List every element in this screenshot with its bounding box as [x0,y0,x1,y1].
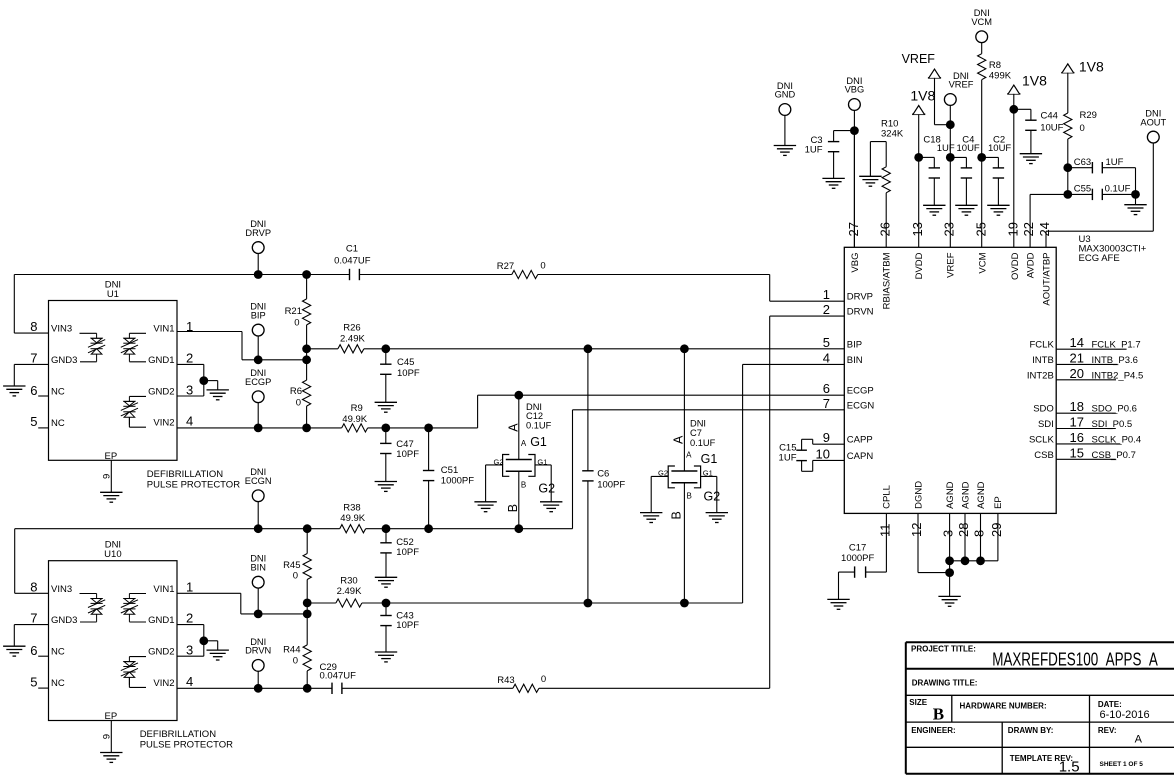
svg-text:R26: R26 [343,323,360,334]
svg-text:ECG AFE: ECG AFE [1079,253,1120,264]
svg-text:BIN: BIN [847,355,863,366]
svg-text:B: B [687,491,692,500]
svg-text:C17: C17 [849,542,866,553]
svg-text:GND2: GND2 [148,386,174,397]
svg-text:27: 27 [846,222,861,236]
svg-text:VIN2: VIN2 [153,678,174,689]
svg-text:SDO_P0.6: SDO_P0.6 [1092,404,1137,415]
svg-text:3: 3 [186,382,193,397]
svg-text:10PF: 10PF [396,449,419,460]
svg-text:BIP: BIP [251,310,266,320]
svg-text:10PF: 10PF [396,620,419,631]
svg-text:DRVN: DRVN [245,646,271,656]
svg-text:NC: NC [51,678,65,689]
svg-text:C1: C1 [346,244,358,255]
svg-text:SDI: SDI [1038,419,1054,430]
svg-text:5: 5 [30,674,37,689]
svg-text:VREF: VREF [949,80,974,90]
svg-text:0.1UF: 0.1UF [690,438,716,448]
svg-text:AOUT: AOUT [1140,117,1166,127]
svg-text:GND3: GND3 [51,355,77,366]
svg-text:C6: C6 [597,469,609,480]
svg-text:DEFIBRILLATION: DEFIBRILLATION [147,469,224,480]
svg-text:11: 11 [877,524,892,538]
svg-text:G1: G1 [701,452,718,466]
svg-text:8: 8 [972,530,987,537]
svg-text:15: 15 [1070,445,1084,460]
svg-text:5: 5 [30,414,37,429]
svg-text:7: 7 [30,350,37,365]
svg-text:8: 8 [30,579,37,594]
svg-text:1000PF: 1000PF [841,553,874,564]
svg-text:R8: R8 [989,60,1001,71]
svg-text:7: 7 [823,396,830,411]
svg-text:3: 3 [941,530,956,537]
svg-text:VIN2: VIN2 [153,418,174,429]
svg-text:AGND: AGND [945,481,956,509]
svg-text:PULSE PROTECTOR: PULSE PROTECTOR [147,480,240,491]
svg-text:NC: NC [51,387,65,398]
svg-text:GND1: GND1 [148,355,174,366]
svg-text:5: 5 [823,335,830,350]
svg-text:A: A [1135,734,1143,746]
svg-text:AGND: AGND [976,481,987,509]
svg-text:10PF: 10PF [397,368,420,379]
svg-text:0: 0 [540,260,545,271]
svg-text:R44: R44 [283,644,300,655]
svg-text:HARDWARE NUMBER:: HARDWARE NUMBER: [960,702,1047,711]
svg-text:INT2B: INT2B [1027,370,1054,381]
svg-text:VBG: VBG [850,253,861,273]
svg-text:DRVN: DRVN [847,307,874,318]
svg-text:1V8: 1V8 [1079,59,1104,75]
svg-text:AGND: AGND [960,481,971,509]
svg-text:0: 0 [293,655,298,666]
svg-text:29: 29 [989,523,1004,537]
svg-text:BIN: BIN [250,562,266,572]
svg-text:INTB_P3.6: INTB_P3.6 [1092,355,1138,366]
svg-text:0: 0 [294,317,299,328]
svg-text:C55: C55 [1074,184,1091,195]
svg-text:49.9K: 49.9K [340,513,365,524]
svg-text:G2: G2 [704,490,721,504]
svg-text:24: 24 [1037,222,1052,236]
svg-text:1: 1 [186,319,193,334]
svg-text:9: 9 [102,474,113,479]
svg-text:DRAWING TITLE:: DRAWING TITLE: [912,678,978,687]
svg-text:VREF: VREF [902,52,936,66]
svg-text:12: 12 [909,523,924,537]
svg-text:10UF: 10UF [957,143,980,154]
svg-text:ECGN: ECGN [847,400,875,411]
svg-text:499K: 499K [989,71,1012,82]
svg-text:B: B [670,511,684,519]
svg-text:1.5: 1.5 [1059,759,1080,775]
svg-text:INTB: INTB [1032,355,1054,366]
svg-text:DNI: DNI [690,418,706,428]
svg-text:DRAWN BY:: DRAWN BY: [1008,726,1054,735]
svg-text:SIZE: SIZE [909,698,927,707]
svg-text:ENGINEER:: ENGINEER: [911,726,955,735]
svg-text:1V8: 1V8 [910,88,935,104]
svg-text:C45: C45 [397,357,414,368]
svg-text:1: 1 [823,287,830,302]
svg-text:13: 13 [910,222,925,236]
svg-text:FCLK_P1.7: FCLK_P1.7 [1092,340,1141,351]
svg-text:9: 9 [823,430,830,445]
svg-text:B: B [506,504,520,512]
svg-text:49.9K: 49.9K [342,414,367,425]
svg-text:AVDD: AVDD [1025,252,1036,278]
svg-text:SCLK: SCLK [1029,434,1054,445]
svg-text:SHEET 1 OF 5: SHEET 1 OF 5 [1100,761,1144,768]
svg-text:MAXREFDES100_APPS_A: MAXREFDES100_APPS_A [992,650,1158,671]
svg-text:0.1UF: 0.1UF [1105,184,1131,195]
svg-text:SDO: SDO [1033,404,1054,415]
svg-text:4: 4 [186,414,193,429]
svg-text:OVDD: OVDD [1010,252,1021,280]
svg-text:DGND: DGND [913,481,924,509]
svg-text:REV:: REV: [1098,726,1117,735]
svg-text:2.49K: 2.49K [340,334,365,345]
svg-text:G1: G1 [537,458,547,467]
svg-text:DEFIBRILLATION: DEFIBRILLATION [140,729,217,740]
svg-text:R45: R45 [283,560,300,571]
svg-text:G1: G1 [703,468,713,477]
svg-text:9: 9 [102,734,113,739]
svg-text:2: 2 [186,611,193,626]
svg-text:BIP: BIP [847,340,862,351]
svg-text:21: 21 [1070,350,1084,365]
svg-text:6-10-2016: 6-10-2016 [1100,709,1150,721]
svg-text:SCLK_P0.4: SCLK_P0.4 [1092,434,1142,445]
svg-text:25: 25 [973,222,988,236]
svg-text:10PF: 10PF [396,547,419,558]
svg-text:NC: NC [51,647,65,658]
svg-text:2.49K: 2.49K [337,586,362,597]
svg-text:26: 26 [877,222,892,236]
svg-text:ECGP: ECGP [847,386,874,397]
svg-text:R30: R30 [340,576,357,587]
svg-text:0: 0 [293,571,298,582]
svg-text:0: 0 [296,398,301,409]
svg-text:10UF: 10UF [988,143,1011,154]
svg-text:G2: G2 [493,458,503,467]
svg-text:1: 1 [186,579,193,594]
svg-text:R6: R6 [290,386,302,397]
svg-text:EP: EP [993,496,1004,509]
svg-text:CAPN: CAPN [847,451,874,462]
svg-text:10: 10 [816,446,830,461]
svg-text:A: A [686,450,692,459]
svg-text:NC: NC [51,418,65,429]
svg-text:CPLL: CPLL [882,485,893,509]
svg-text:FCLK: FCLK [1030,340,1055,351]
svg-text:DATE:: DATE: [1098,700,1122,709]
svg-text:EP: EP [105,451,118,462]
svg-text:VIN1: VIN1 [153,584,174,595]
svg-text:C7: C7 [690,428,702,438]
svg-text:GND3: GND3 [51,615,77,626]
svg-text:6: 6 [30,383,37,398]
svg-text:0.047UF: 0.047UF [320,670,357,681]
svg-text:4: 4 [823,350,830,365]
svg-text:0.1UF: 0.1UF [526,421,552,431]
svg-text:1UF: 1UF [779,453,797,464]
svg-text:GND2: GND2 [148,647,174,658]
svg-text:2: 2 [823,302,830,317]
svg-text:0: 0 [1080,123,1085,134]
svg-text:3: 3 [186,643,193,658]
svg-text:1UF: 1UF [805,145,823,156]
svg-text:23: 23 [941,222,956,236]
svg-text:10UF: 10UF [1040,122,1063,133]
svg-text:20: 20 [1070,366,1084,381]
svg-text:100PF: 100PF [597,480,625,491]
svg-text:16: 16 [1070,430,1084,445]
svg-text:ECGN: ECGN [245,476,272,486]
svg-text:22: 22 [1021,222,1036,236]
svg-text:0: 0 [541,674,546,685]
svg-text:1UF: 1UF [937,143,955,154]
svg-text:RBIAS/ATBM: RBIAS/ATBM [882,252,893,309]
svg-text:19: 19 [1006,222,1021,236]
svg-text:R29: R29 [1080,110,1097,121]
svg-text:CSB: CSB [1034,450,1054,461]
svg-text:R9: R9 [351,403,363,414]
svg-text:AOUT/ATBP: AOUT/ATBP [1041,253,1052,306]
svg-text:A: A [521,439,527,448]
svg-text:6: 6 [823,381,830,396]
svg-text:CAPP: CAPP [847,435,873,446]
svg-text:VCM: VCM [971,17,992,27]
svg-text:VIN1: VIN1 [153,324,174,335]
svg-text:14: 14 [1070,335,1084,350]
svg-text:C63: C63 [1074,157,1091,168]
svg-text:A: A [671,435,685,444]
svg-text:U1: U1 [107,289,119,300]
svg-text:B: B [521,480,526,489]
svg-text:INTB2_P4.5: INTB2_P4.5 [1092,370,1144,381]
svg-text:324K: 324K [881,128,904,139]
svg-text:EP: EP [105,711,118,722]
svg-text:B: B [933,704,944,723]
svg-text:R21: R21 [285,306,302,317]
svg-text:6: 6 [30,643,37,658]
svg-text:VCM: VCM [978,252,989,273]
svg-text:VBG: VBG [845,85,865,95]
svg-text:VIN3: VIN3 [51,584,72,595]
svg-text:18: 18 [1070,399,1084,414]
svg-text:GND1: GND1 [148,615,174,626]
svg-text:8: 8 [30,319,37,334]
svg-text:2: 2 [186,350,193,365]
svg-text:R43: R43 [497,675,514,686]
svg-text:G1: G1 [530,435,547,449]
svg-text:SDI_P0.5: SDI_P0.5 [1092,419,1133,430]
svg-text:A: A [506,423,520,432]
svg-text:0.047UF: 0.047UF [334,255,371,266]
svg-text:PROJECT TITLE:: PROJECT TITLE: [911,645,976,654]
svg-text:CSB_P0.7: CSB_P0.7 [1092,450,1136,461]
svg-text:1000PF: 1000PF [441,475,474,486]
svg-text:VIN3: VIN3 [51,324,72,335]
svg-text:4: 4 [186,674,193,689]
svg-text:G2: G2 [658,468,668,477]
svg-text:U10: U10 [104,549,121,560]
svg-text:R27: R27 [497,261,514,272]
svg-text:1V8: 1V8 [1022,73,1047,89]
svg-text:C44: C44 [1041,110,1058,121]
svg-text:VREF: VREF [946,252,957,278]
svg-text:DVDD: DVDD [914,252,925,279]
svg-text:ECGP: ECGP [245,377,271,387]
svg-text:G2: G2 [538,482,555,496]
svg-text:1UF: 1UF [1106,157,1124,168]
svg-text:GND: GND [775,90,796,100]
svg-text:28: 28 [956,523,971,537]
svg-text:PULSE PROTECTOR: PULSE PROTECTOR [140,740,233,751]
svg-text:7: 7 [30,611,37,626]
svg-text:17: 17 [1070,415,1084,430]
svg-text:DRVP: DRVP [245,228,271,238]
svg-text:DRVP: DRVP [847,292,873,303]
